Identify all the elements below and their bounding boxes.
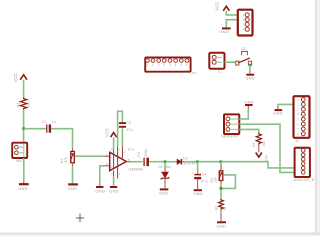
svg-text:10k: 10k xyxy=(213,177,217,183)
svg-text:1: 1 xyxy=(119,147,121,151)
op-amp pin 8 line xyxy=(121,146,123,159)
op-amp output pin 5 wire xyxy=(126,161,142,163)
svg-text:8: 8 xyxy=(123,151,125,155)
ground GND (J1 pin2) xyxy=(273,104,294,115)
wire node C4 to node R4 xyxy=(198,161,221,163)
wire C4 to ground xyxy=(197,179,199,189)
ground GND (pin 3) xyxy=(95,187,104,193)
ground GND (sensor pin1, inverted) xyxy=(244,99,253,105)
svg-text:10k: 10k xyxy=(262,141,266,147)
node junction switch/GND xyxy=(249,64,252,67)
wire gain loop pins 1-8 xyxy=(118,111,123,146)
connector JP1 (8-pin horizontal) xyxy=(145,57,197,74)
wire sensor pin1 to ground xyxy=(239,106,248,119)
svg-text:6: 6 xyxy=(111,147,113,151)
zener diode D1 xyxy=(159,165,172,180)
ground GND (switch) xyxy=(245,75,254,81)
op-amp pin 1 / pin 7 line xyxy=(117,146,119,178)
svg-text:2: 2 xyxy=(106,153,108,157)
wire connector to switch S1 xyxy=(225,61,237,63)
wire D2 to node C4 xyxy=(184,161,197,163)
svg-text:GND: GND xyxy=(95,188,104,193)
ground GND (mic) xyxy=(18,184,28,191)
svg-text:1u: 1u xyxy=(52,120,56,124)
svg-text:GND: GND xyxy=(245,75,254,80)
ground GND (R3) xyxy=(217,222,227,228)
wire junction to C1 xyxy=(24,128,46,130)
wire VCC to connector pin1 xyxy=(226,11,245,15)
resistor R1 xyxy=(17,97,31,109)
svg-text:3: 3 xyxy=(106,162,108,166)
svg-text:J2: J2 xyxy=(218,69,222,73)
svg-text:GND: GND xyxy=(68,186,77,191)
connector J1 (8-pin) xyxy=(294,96,310,143)
capacitor C3 xyxy=(137,149,148,166)
svg-text:5v1: 5v1 xyxy=(166,165,172,169)
svg-text:4: 4 xyxy=(111,172,113,176)
svg-text:2k2: 2k2 xyxy=(27,101,31,107)
node junction D1 xyxy=(164,160,167,163)
trimpot R2 xyxy=(60,151,74,163)
origin cross mark xyxy=(76,214,84,222)
svg-text:4.7u: 4.7u xyxy=(201,180,208,184)
svg-text:220u: 220u xyxy=(144,149,148,157)
wire switch to ground xyxy=(249,65,251,74)
connector J2 (4-pin power) xyxy=(238,10,253,36)
wire mic to ground xyxy=(23,158,25,183)
frame bottom border xyxy=(0,233,320,236)
ground GND (D1) xyxy=(159,189,169,195)
svg-text:SENSOR: SENSOR xyxy=(221,134,238,139)
svg-text:R3: R3 xyxy=(214,206,218,211)
svg-text:IC1: IC1 xyxy=(128,147,135,152)
svg-text:GND: GND xyxy=(219,29,228,34)
wire C1 to trimpot R2 xyxy=(51,129,72,152)
wire node to C4 xyxy=(197,162,199,174)
wire node to R3 xyxy=(220,189,222,199)
supply symbol VCC (inverted, R5) xyxy=(256,145,268,163)
svg-text:C4: C4 xyxy=(202,172,207,176)
supply symbol VCC (op-amp) xyxy=(104,128,116,150)
wire sensor pin3 to R5 xyxy=(239,129,258,133)
node junction R3 xyxy=(220,187,223,190)
svg-text:GND: GND xyxy=(18,186,27,191)
diode D2 1N4148 xyxy=(177,157,196,166)
svg-text:GND: GND xyxy=(217,223,226,228)
svg-text:R1: R1 xyxy=(17,102,21,107)
resistor R3 xyxy=(214,199,227,211)
supply symbol VCC (top-right) xyxy=(214,2,229,11)
wire op-amp pin 3 to ground xyxy=(100,166,110,186)
wire C3 to node xyxy=(149,161,165,163)
wire node to D1 xyxy=(164,162,166,172)
svg-text:C2: C2 xyxy=(126,121,131,125)
capacitor C2 xyxy=(119,121,133,132)
ground GND (C4) xyxy=(193,190,202,196)
resistor R5 xyxy=(252,133,266,147)
wire node to trimpot R4 xyxy=(220,162,222,171)
ground GND (op-amp pin 4) xyxy=(109,187,118,193)
wire VCC to R1 xyxy=(23,80,25,98)
connector J3 (2-pin, switch) xyxy=(209,53,224,74)
connector SENSOR xyxy=(221,114,239,138)
wire trimpot R2 bottom to ground xyxy=(72,163,74,184)
op-amp pin 6 VCC line xyxy=(113,150,115,168)
svg-text:GND: GND xyxy=(273,111,282,116)
op-amp pin 4 wire to ground xyxy=(113,171,115,186)
svg-text:VCC: VCC xyxy=(13,73,18,82)
svg-text:GND: GND xyxy=(193,191,202,196)
wire R1 to mic junction xyxy=(23,110,25,143)
wire R3 to ground xyxy=(220,210,222,221)
svg-text:S1: S1 xyxy=(241,47,246,51)
wire node to D2 xyxy=(166,161,177,163)
svg-text:2k: 2k xyxy=(223,206,227,210)
svg-text:VCC: VCC xyxy=(104,128,109,137)
capacitor C4 xyxy=(192,171,208,183)
wire trimpot R4 bottom xyxy=(220,181,222,190)
microphone MK1 xyxy=(12,143,27,164)
svg-text:VCC: VCC xyxy=(214,2,219,11)
ground GND (trimpot R2) xyxy=(68,184,78,191)
ground GND (top-right connector) xyxy=(219,28,230,34)
svg-text:JP1: JP1 xyxy=(192,71,198,75)
svg-text:GND: GND xyxy=(244,99,253,104)
wire sensor pin2 to analog connector xyxy=(239,124,294,172)
svg-text:C1: C1 xyxy=(42,120,47,124)
svg-text:VCC: VCC xyxy=(264,155,268,163)
wire main signal to analog connector xyxy=(221,162,295,168)
svg-text:LM386N: LM386N xyxy=(128,168,143,172)
node junction C4 xyxy=(196,160,199,163)
svg-text:D2: D2 xyxy=(183,157,188,161)
wire wiper R2 to op-amp pin 2 xyxy=(75,155,110,157)
svg-text:C3: C3 xyxy=(137,152,141,157)
connector ANALOG xyxy=(294,148,315,182)
capacitor C1 xyxy=(42,120,57,133)
switch S1 xyxy=(236,47,252,65)
svg-text:47u: 47u xyxy=(126,128,132,132)
svg-text:GND: GND xyxy=(109,188,118,193)
svg-text:+: + xyxy=(192,171,194,175)
svg-text:47k: 47k xyxy=(64,157,68,163)
svg-text:J1: J1 xyxy=(295,139,299,143)
trimpot R4 xyxy=(210,171,223,183)
svg-text:D1: D1 xyxy=(159,165,164,169)
svg-text:ANALOG_E: ANALOG_E xyxy=(294,178,315,182)
op-amp IC1 LM386N xyxy=(106,147,143,176)
wire D1 to ground xyxy=(164,178,166,188)
wire trimpot R4 wiper loop xyxy=(222,175,235,189)
wire connector pin2 to ground xyxy=(226,20,245,28)
frame right border xyxy=(316,0,320,236)
svg-text:R5: R5 xyxy=(252,142,256,147)
node junction mic/R1/C1 xyxy=(22,127,25,130)
supply symbol VCC (top-left) xyxy=(13,73,27,82)
node junction R4 xyxy=(220,160,223,163)
svg-text:GND: GND xyxy=(159,191,168,196)
svg-text:7: 7 xyxy=(119,172,121,176)
